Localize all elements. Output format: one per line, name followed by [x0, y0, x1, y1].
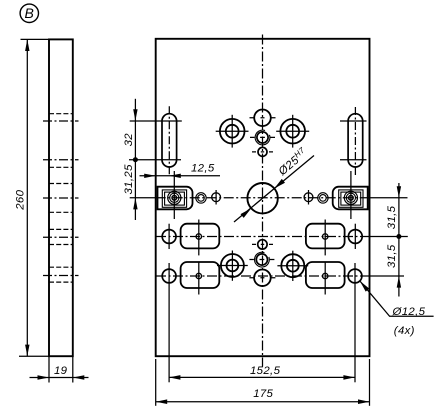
side view centerline slot row 1 — [43, 120, 79, 122]
hole D12.5 lower right crosshair v / dim 152.5 extension — [354, 263, 356, 382]
lower right counterbore outer — [281, 254, 304, 277]
right clamp crosshair v — [350, 171, 352, 219]
lower left counterbore outer — [221, 254, 244, 277]
dimension 12.5 line — [140, 175, 221, 177]
side view hidden line (slot top) — [49, 113, 73, 115]
side view outline — [49, 39, 73, 356]
upper left counterbore outer — [220, 119, 245, 144]
dimension 152.5 arrow right — [343, 375, 355, 380]
svg-text:152,5: 152,5 — [250, 365, 281, 377]
left slot crosshair bottom / dim extension — [129, 159, 181, 161]
pocket row centerline 1 — [156, 236, 363, 238]
right clamp circle outer — [344, 191, 357, 204]
center lower thread crosshair — [249, 259, 274, 261]
dim extension right at hole row 2 — [363, 275, 404, 277]
upper right counterbore crosshair v — [292, 115, 294, 148]
dim extension left at center row — [130, 197, 156, 199]
D25 leader line — [234, 156, 314, 223]
center upper thread hole — [257, 132, 268, 143]
upper left counterbore crosshair v — [231, 115, 233, 148]
dimension 12.5 arrow left — [169, 174, 181, 178]
dimension 152.5 arrow left — [169, 375, 181, 380]
central bore D25 — [247, 183, 277, 213]
left clamp inner rect 2 — [165, 192, 185, 205]
center top circle crosshair — [250, 117, 276, 119]
pocket dot upper left — [196, 234, 201, 239]
dimension 19 extension left — [48, 356, 50, 382]
right clamp circle center — [349, 196, 354, 201]
left clamp crosshair v — [173, 171, 175, 219]
svg-text:31,25: 31,25 — [123, 164, 135, 195]
center lower thread hole — [256, 254, 267, 265]
hole D12.5 lower left — [162, 269, 176, 283]
right slot crosshair bottom — [340, 159, 367, 161]
upper left counterbore inner — [226, 125, 239, 138]
center bottom circle — [254, 270, 271, 287]
hole D12.5 upper left crosshair v — [168, 224, 170, 249]
side view centerline hole row 1 — [43, 236, 79, 238]
svg-text:260: 260 — [15, 189, 27, 210]
pocket dot upper right — [323, 234, 328, 239]
lower left counterbore crosshair h — [217, 265, 248, 267]
center upper thread crosshair — [250, 136, 275, 138]
svg-text:31,5: 31,5 — [386, 205, 398, 229]
dim extension right at center row — [370, 197, 408, 199]
lower left counterbore crosshair v — [231, 251, 233, 281]
svg-text:Ø12,5: Ø12,5 — [392, 306, 426, 318]
side view hidden line (bore bottom) — [49, 211, 73, 213]
svg-text:B: B — [24, 5, 34, 21]
dimension 31.25 arrow up — [133, 198, 137, 210]
front view plate outline — [156, 39, 370, 356]
right clamp block outline — [333, 187, 368, 210]
dimension 175 line — [156, 401, 370, 403]
left slot centerline vertical — [168, 106, 170, 176]
right mid single circle crosshair v — [308, 190, 310, 205]
pocket dot lower left — [196, 273, 201, 278]
right slot centerline vertical — [354, 107, 356, 177]
dimension 32 arrow down — [133, 109, 137, 121]
pocket dot upper left crosshair — [198, 220, 200, 256]
hole D12.5 lower right — [348, 269, 362, 283]
pocket lower right — [306, 262, 345, 288]
dimension 19 arrow left — [38, 375, 50, 380]
horizontal main centerline — [156, 197, 370, 199]
side view centerline middle — [43, 197, 79, 199]
left slot — [162, 114, 177, 167]
left mid double circle — [196, 193, 206, 203]
upper right counterbore inner — [286, 125, 299, 138]
center small circle lower — [258, 240, 267, 249]
lower right counterbore crosshair v — [292, 251, 294, 281]
dimension 152.5 line — [169, 376, 355, 378]
left clamp block outline — [158, 187, 193, 210]
dimension chain node dot — [133, 157, 138, 162]
upper left counterbore crosshair h — [216, 130, 249, 132]
dimension 31.5 arrow down — [397, 186, 401, 198]
hole D12.5 upper left — [162, 230, 176, 244]
side view hidden line (hole2 bottom) — [49, 281, 73, 283]
center upper thread arc — [255, 130, 270, 145]
dimension 31.5 arrow up — [397, 276, 401, 288]
dimension 19 extension right — [72, 356, 74, 382]
right clamp inner rect 2 — [341, 192, 361, 205]
side view centerline slot row 2 — [43, 159, 79, 161]
D25 leader arrow lower — [241, 208, 252, 218]
dimension 12.5 arrow right — [144, 174, 156, 178]
dimension 260 line — [26, 39, 28, 356]
dimension 175 arrow left — [156, 399, 168, 404]
lower right counterbore crosshair h — [277, 265, 308, 267]
side view centerline hole row 2 — [43, 275, 79, 277]
dimension 32/31.25 line — [134, 99, 136, 220]
dimension 260 arrow up — [25, 39, 29, 51]
pocket upper right — [306, 224, 345, 249]
svg-text:31,5: 31,5 — [386, 244, 398, 268]
right clamp inner rect 1 — [339, 190, 363, 207]
pocket dot lower right — [323, 273, 328, 278]
center small circle lower crosshair — [252, 243, 273, 245]
vertical main centerline — [262, 35, 264, 367]
right slot — [348, 114, 363, 167]
svg-text:12,5: 12,5 — [191, 163, 215, 175]
left clamp circle mid — [170, 193, 179, 202]
dimension 260 extension bottom — [19, 355, 49, 357]
dimension 260 arrow down — [25, 345, 29, 357]
dimension 19 arrow right — [73, 375, 85, 380]
pocket dot lower left crosshair — [198, 263, 200, 295]
pocket dot lower right crosshair — [324, 263, 326, 295]
hole D12.5 upper right — [348, 230, 362, 244]
hole D12.5 lower left crosshair v / dim 152.5 extension — [168, 263, 170, 382]
hole D12.5 upper right crosshair v — [354, 224, 356, 249]
svg-text:175: 175 — [253, 388, 273, 400]
pocket row centerline 2 — [156, 275, 363, 277]
dimension 175 extension left — [155, 359, 157, 406]
center small circle upper — [258, 147, 267, 156]
dimension 31.5/31.5 line — [398, 183, 400, 297]
center bottom circle crosshair — [249, 277, 275, 279]
center top circle — [254, 110, 271, 127]
upper right counterbore outer — [280, 119, 305, 144]
lower right counterbore inner — [287, 260, 299, 272]
leader D12.5 arrow — [360, 281, 370, 292]
side view hidden line (bore top) — [49, 183, 73, 185]
view label B circle — [20, 4, 38, 22]
right mid single circle — [304, 193, 313, 202]
side view hidden line (hole2 top) — [49, 266, 73, 268]
left clamp inner rect 1 — [162, 190, 186, 207]
upper right counterbore crosshair h — [276, 130, 309, 132]
side view hidden line (hole top) — [49, 228, 73, 230]
svg-text:(4x): (4x) — [394, 325, 415, 337]
leader D12.5 line — [360, 281, 434, 316]
dimension 175 extension right — [369, 359, 371, 406]
left clamp circle outer — [168, 191, 181, 204]
left mid single circle crosshair v — [215, 190, 217, 205]
side view hidden line (hole bottom) — [49, 244, 73, 246]
svg-text:19: 19 — [54, 365, 68, 377]
pocket upper left — [181, 224, 220, 249]
right clamp circle mid — [346, 193, 355, 202]
pocket dot upper right crosshair — [324, 220, 326, 256]
lower left counterbore inner — [227, 260, 239, 272]
right slot crosshair top — [340, 120, 367, 122]
left clamp circle center — [172, 196, 177, 201]
right mid double circle — [318, 193, 328, 203]
dimension 19 line — [30, 377, 89, 379]
dimension 31.5 node dot — [396, 234, 401, 239]
pocket lower left — [181, 262, 220, 288]
dimension 175 arrow right — [358, 399, 370, 404]
dim extension right at hole row 1 — [363, 236, 408, 238]
svg-text:32: 32 — [123, 133, 135, 147]
dimension 260 extension top — [21, 38, 50, 40]
center small circle upper crosshair — [252, 151, 273, 153]
center lower thread arc — [255, 252, 270, 267]
side view hidden line (slot bottom) — [49, 166, 73, 168]
left slot crosshair top / dim 32 extension — [130, 120, 182, 122]
left mid single circle — [212, 193, 221, 202]
D25 leader arrow upper — [274, 179, 285, 189]
